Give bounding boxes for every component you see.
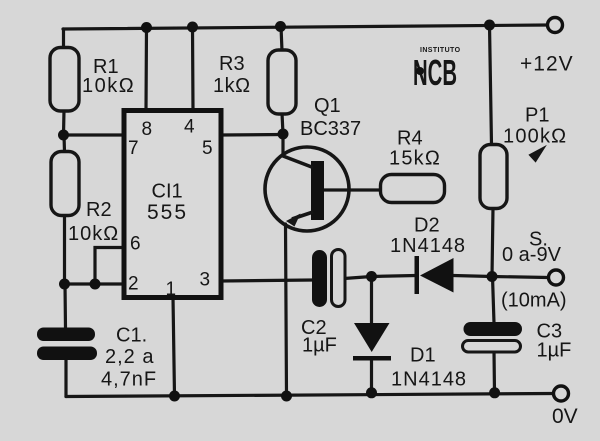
- label 0V: [552, 405, 578, 428]
- resistor R4: [381, 175, 445, 203]
- wire R2 top stub: [62, 135, 66, 152]
- svg-text:4,7nF: 4,7nF: [101, 369, 157, 391]
- svg-text:1N4148: 1N4148: [391, 369, 467, 391]
- wire R1 top stub: [62, 29, 65, 48]
- NCB Instituto logo: [413, 47, 461, 93]
- node D2-P1-C3-output junction: [487, 271, 498, 282]
- wire node to C3 top: [493, 277, 495, 324]
- wire pin 2: [65, 282, 125, 285]
- node C2-D1-D2 junction: [366, 271, 377, 282]
- svg-text:0V: 0V: [552, 405, 578, 428]
- wire pin 7: [64, 133, 125, 136]
- svg-text:2,2 a: 2,2 a: [105, 346, 154, 368]
- svg-text:R4: R4: [397, 128, 423, 150]
- terminal 0V: [554, 386, 569, 401]
- svg-text:1µF: 1µF: [302, 335, 337, 357]
- label R1: [82, 56, 135, 97]
- svg-text:R2: R2: [86, 199, 112, 221]
- svg-text:1N4148: 1N4148: [390, 235, 466, 257]
- wire P1 bottom drop: [492, 208, 493, 277]
- wire output to S terminal: [492, 277, 548, 278]
- svg-text:P1: P1: [525, 105, 549, 127]
- pin 3: [200, 270, 211, 291]
- node emitter-rail junction: [281, 391, 292, 402]
- resistor R2: [51, 152, 79, 216]
- capacitor C1: [37, 328, 97, 361]
- node pin6 jog junction: [90, 279, 101, 290]
- wire R3 top stub: [281, 27, 282, 52]
- svg-text:8: 8: [142, 119, 153, 140]
- pin 5: [202, 138, 213, 159]
- wire Q1 base to R4: [324, 188, 381, 191]
- wire C1 bottom to rail: [64, 359, 67, 397]
- pin 8: [142, 119, 153, 140]
- wire pin 1 drop: [173, 297, 175, 396]
- label R3: [213, 53, 251, 97]
- label R2: [68, 199, 119, 245]
- label R4: [389, 128, 441, 170]
- wire pin 3 to C2: [220, 280, 313, 281]
- node pin1-rail junction: [169, 391, 180, 402]
- diode D1: [353, 323, 391, 361]
- svg-text:3: 3: [200, 270, 211, 291]
- node rail-R1/pin8 junction: [141, 22, 152, 33]
- wire D1 bottom: [370, 360, 373, 393]
- wire C3 bottom to rail: [492, 351, 496, 393]
- svg-text:R3: R3: [219, 53, 245, 75]
- label P1: [503, 105, 567, 148]
- label CI1 555: [147, 181, 188, 225]
- wire R3 bottom to node: [282, 113, 283, 134]
- svg-text:0 a-9V: 0 a-9V: [502, 244, 562, 266]
- wire C2 to D1/D2 node: [344, 277, 372, 279]
- wire R2 bottom to node: [63, 215, 66, 284]
- wire node to C1 top: [63, 284, 67, 329]
- wire collector drop to Q1: [281, 134, 284, 156]
- svg-text:5: 5: [202, 138, 213, 159]
- node rail R3 junction: [275, 21, 286, 32]
- label +12V: [520, 53, 574, 76]
- svg-text:CI1: CI1: [152, 181, 183, 203]
- pin 4: [184, 117, 195, 138]
- svg-text:555: 555: [147, 201, 188, 224]
- wire pin 6 jog: [95, 248, 124, 285]
- svg-text:C1.: C1.: [116, 325, 147, 347]
- svg-text:10kΩ: 10kΩ: [82, 75, 135, 97]
- terminal S output: [549, 270, 564, 285]
- node R3-pin5-collector junction: [278, 129, 289, 140]
- svg-text:1kΩ: 1kΩ: [213, 75, 251, 97]
- svg-text:6: 6: [130, 234, 141, 255]
- node R1-R2-pin7 junction: [58, 130, 69, 141]
- node rail pin4 junction: [187, 22, 198, 33]
- label C3: [537, 321, 572, 362]
- wire R1 bottom to node: [62, 110, 66, 135]
- diode D2: [415, 256, 454, 294]
- svg-text:15kΩ: 15kΩ: [389, 148, 441, 170]
- wire D1 top: [370, 277, 373, 325]
- svg-text:10kΩ: 10kΩ: [68, 223, 119, 245]
- svg-text:Q1: Q1: [314, 95, 341, 117]
- svg-text:4: 4: [184, 117, 195, 138]
- label Q1 BC337: [300, 95, 361, 140]
- wire D2 cathode side: [372, 276, 417, 277]
- capacitor C3: [463, 322, 523, 352]
- svg-text:D2: D2: [414, 215, 440, 237]
- wire pin 5: [221, 133, 283, 137]
- pin 1: [166, 279, 177, 300]
- potentiometer P1: [480, 145, 544, 209]
- wire pin 4 drop from rail: [191, 27, 195, 110]
- svg-text:BC337: BC337: [300, 118, 361, 140]
- wire pin 8 drop from rail: [144, 28, 148, 111]
- pin 6: [130, 234, 141, 255]
- terminal +12V: [548, 18, 563, 33]
- node C3-rail junction: [489, 387, 500, 398]
- wire emitter drop to rail: [286, 224, 287, 396]
- label S output: [501, 229, 567, 312]
- wire 0V bottom rail: [66, 394, 553, 397]
- svg-text:D1: D1: [410, 345, 436, 367]
- svg-text:(10mA): (10mA): [501, 290, 567, 312]
- wire D2 anode side: [453, 276, 492, 277]
- capacitor C2: [312, 250, 345, 308]
- transistor Q1: [265, 147, 349, 231]
- resistor R3: [268, 50, 296, 114]
- svg-text:1: 1: [166, 279, 177, 300]
- svg-text:1µF: 1µF: [537, 340, 572, 362]
- node rail P1 junction: [484, 20, 495, 31]
- wire +12V top rail: [63, 25, 548, 29]
- svg-text:2: 2: [128, 274, 139, 295]
- wire P1 top drop from rail: [490, 25, 492, 145]
- svg-text:7: 7: [128, 138, 139, 159]
- label C2: [301, 317, 337, 357]
- resistor R1: [50, 48, 79, 112]
- svg-text:100kΩ: 100kΩ: [503, 126, 567, 148]
- label D2: [390, 215, 466, 258]
- node R2-pin2 junction: [59, 279, 70, 290]
- IC CI1 555: [124, 111, 221, 298]
- label D1: [391, 345, 467, 391]
- label C1: [101, 325, 157, 391]
- pin 7: [128, 138, 139, 159]
- svg-text:+12V: +12V: [520, 53, 574, 76]
- pin 2: [128, 274, 139, 295]
- node D1-rail junction: [366, 387, 377, 398]
